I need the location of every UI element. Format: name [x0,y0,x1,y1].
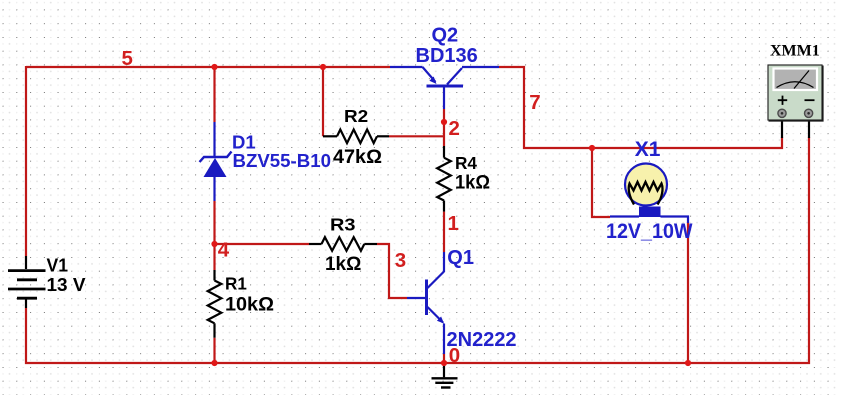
svg-text:10kΩ: 10kΩ [225,295,274,316]
junction node 0 at R1 [211,360,217,366]
svg-text:R3: R3 [330,215,356,235]
wire net4 node4 to R3 [215,243,310,245]
resistor R1 [208,270,222,338]
junction node 5 at R2 [320,64,326,70]
svg-text:BZV55-B10: BZV55-B10 [233,150,332,171]
transistor Q2 BD136 [390,67,499,109]
wire multimeter plus stub [781,116,783,138]
resistor R2 [323,130,389,144]
svg-text:7: 7 [529,91,540,114]
wire net7 Q2 collector to corner, down, right to multimeter plus [499,67,782,148]
junction node 0 at lamp [685,360,691,366]
wire multimeter minus stub [808,116,810,138]
wire net4 node4 down to R1 [213,244,215,270]
svg-text:Q1: Q1 [447,247,474,269]
svg-text:0: 0 [449,344,460,367]
zener diode D1 [200,122,232,201]
wire net2 R2 right lead to column [389,135,444,137]
svg-text:XMM1: XMM1 [770,43,820,60]
svg-text:5: 5 [122,47,133,70]
ground [432,363,458,388]
svg-text:1kΩ: 1kΩ [455,172,490,193]
svg-text:BD136: BD136 [416,45,478,67]
junction node 5 at D1 [211,64,217,70]
svg-text:4: 4 [218,238,230,261]
junction node 7 at lamp [589,145,595,151]
svg-text:X1: X1 [635,138,661,161]
wire net1 R4 to Q1 collector [443,212,445,252]
svg-text:1kΩ: 1kΩ [325,254,361,275]
wire net7 lamp branch down and to lamp [592,148,610,217]
wire net0 Q1 emitter to rail [443,354,445,363]
wire net0 battery bottom to rail and bottom rail to multimeter minus [26,137,809,363]
wire net4 D1 to node 4 [213,201,215,244]
junction node 0 at ground [441,360,447,366]
battery V1 [8,256,46,308]
svg-text:R4: R4 [455,153,477,173]
wire net3 R3 to Q1 base [377,244,407,298]
svg-text:1: 1 [448,212,459,235]
lamp X1 [610,164,688,224]
wire net5 drop to R2 [322,67,324,136]
svg-text:Q2: Q2 [432,25,459,47]
svg-text:47kΩ: 47kΩ [333,147,382,168]
junction node 2 [441,119,447,125]
svg-text:12V_10W: 12V_10W [606,220,693,243]
wire net0 R1 bottom to rail [213,338,215,363]
wire net5 top rail [26,66,390,68]
transistor Q1 2N2222 [407,252,444,354]
svg-text:2: 2 [449,117,460,140]
wire net5 drop to D1 [213,67,215,122]
wire net0 lamp right to rail [687,222,689,363]
svg-text:3: 3 [395,249,406,272]
junction node 4 [211,241,217,247]
svg-text:V1: V1 [47,256,69,276]
svg-text:13 V: 13 V [47,275,86,295]
svg-text:R2: R2 [344,106,368,126]
wire net2 Q2 base to R4 [443,109,445,146]
resistor R4 [437,146,451,212]
svg-text:R1: R1 [225,274,247,294]
resistor R3 [309,237,377,251]
multimeter XMM1 [768,65,823,121]
wire net5 left drop to battery [25,66,27,256]
